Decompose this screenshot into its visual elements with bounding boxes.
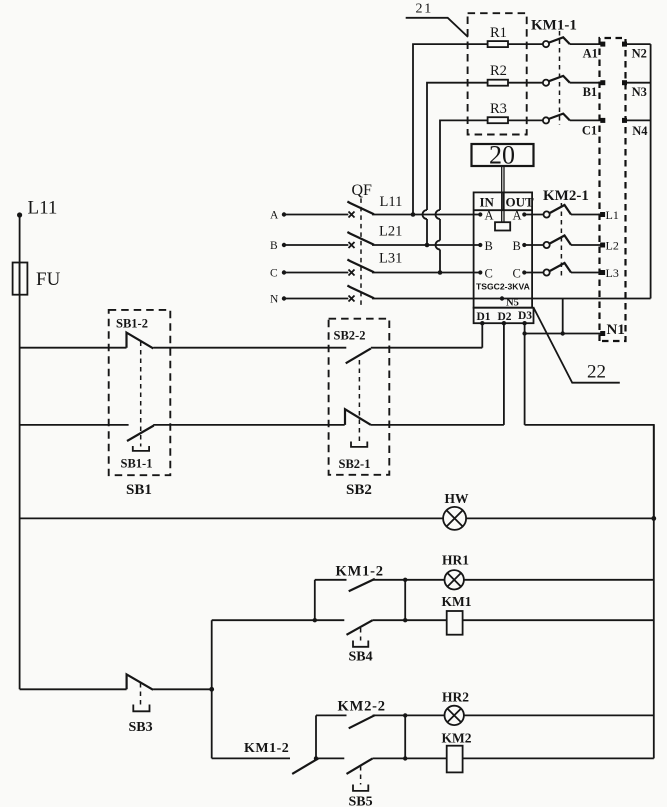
wire D3 drop <box>524 323 526 425</box>
svg-text:N3: N3 <box>632 85 647 99</box>
QF pole B <box>270 232 480 252</box>
label 22 with pointer <box>534 308 620 383</box>
wire N5 drop to N1 <box>562 299 564 334</box>
svg-text:FU: FU <box>36 269 61 290</box>
svg-text:A1: A1 <box>583 47 598 61</box>
wire left rail <box>19 215 21 689</box>
KM2-1 mechanical link (dashed) <box>560 203 562 276</box>
wire HR1-KM1 tie <box>404 580 406 620</box>
dashed box 21 (resistor bank) <box>468 13 527 134</box>
KM1-1 contact pole 3 <box>543 114 603 124</box>
svg-text:C: C <box>513 267 521 281</box>
svg-text:R1: R1 <box>490 25 507 41</box>
svg-text:OUT: OUT <box>506 195 535 210</box>
coil KM1 <box>442 594 472 635</box>
wire branch riser to HR2 <box>315 715 317 758</box>
contactor contact KM1-2 (NC on HR1 line) <box>336 564 384 592</box>
transformer unit U (TSGC2-3KVA) <box>474 192 534 307</box>
controller box 20 <box>472 141 534 170</box>
svg-text:KM1-2: KM1-2 <box>336 564 384 580</box>
dashed box SB1 <box>109 310 171 475</box>
SB1 actuator link (dashed) <box>140 342 142 447</box>
svg-text:21: 21 <box>416 2 434 17</box>
lamp HR1 <box>442 553 469 590</box>
wire KM2 branch line <box>212 757 654 759</box>
svg-text:L31: L31 <box>379 250 402 266</box>
wire control line 1 <box>20 347 483 349</box>
svg-text:C1: C1 <box>582 124 597 138</box>
svg-text:22: 22 <box>587 362 606 383</box>
node A1 <box>583 42 606 61</box>
svg-text:L21: L21 <box>379 224 402 240</box>
svg-text:SB1: SB1 <box>126 482 152 498</box>
wire D3 run to right rail <box>525 425 654 519</box>
pushbutton contact SB2-1 (NC) <box>339 409 371 471</box>
svg-text:SB2: SB2 <box>346 482 372 498</box>
pushbutton SB5 (NO) <box>347 758 373 807</box>
QF pole C <box>270 260 480 280</box>
KM2-1 contact pole 1 <box>524 205 602 218</box>
node L2 <box>600 239 619 253</box>
resistor R2 <box>423 63 543 247</box>
svg-text:N: N <box>270 294 279 306</box>
wire HR2-KM2 tie <box>404 715 406 758</box>
svg-text:SB2-1: SB2-1 <box>339 457 371 471</box>
svg-text:L11: L11 <box>380 194 403 210</box>
svg-text:N4: N4 <box>632 124 648 138</box>
svg-text:C: C <box>485 267 493 281</box>
svg-text:KM1-1: KM1-1 <box>531 18 577 34</box>
terminal strip dashed box <box>600 38 626 341</box>
svg-text:SB1-1: SB1-1 <box>121 457 153 471</box>
node B1 <box>583 80 606 99</box>
node C1 <box>582 118 605 138</box>
KM2-1 contact pole 3 <box>524 263 602 276</box>
svg-text:C: C <box>270 268 278 280</box>
wire right rail (control) <box>653 425 655 759</box>
svg-text:SB2-2: SB2-2 <box>334 329 366 343</box>
pushbutton contact SB2-2 (NO shown open) <box>334 329 371 364</box>
wire control line 2 <box>20 424 504 426</box>
pushbutton contact SB1-1 (NO) <box>121 426 154 471</box>
svg-text:B1: B1 <box>583 85 598 99</box>
wire mid rail <box>211 620 213 758</box>
dashed box SB2 <box>329 319 390 475</box>
svg-text:A: A <box>270 210 279 222</box>
lamp HR2 <box>442 690 469 726</box>
wire HR2 line <box>316 714 654 716</box>
svg-text:IN: IN <box>480 195 495 210</box>
svg-text:TSGC2-3KVA: TSGC2-3KVA <box>476 282 530 292</box>
QF pole N <box>270 286 374 306</box>
lamp HW <box>443 491 469 530</box>
pushbutton SB4 (NO) <box>347 620 373 664</box>
node L1 <box>600 208 619 222</box>
contactor contact KM1-2 (second, on KM2 line) <box>244 741 318 774</box>
svg-text:KM2-1: KM2-1 <box>543 188 589 204</box>
KM2-1 contact pole 2 <box>524 236 602 249</box>
label 21 <box>406 2 468 37</box>
svg-text:R2: R2 <box>490 63 507 79</box>
resistor R1 <box>411 25 543 217</box>
svg-text:HR1: HR1 <box>442 553 469 568</box>
resistor R3 <box>436 101 543 275</box>
svg-text:B: B <box>485 239 493 253</box>
node N4 <box>622 118 651 138</box>
wire HR1 line <box>315 579 654 581</box>
svg-text:SB4: SB4 <box>349 650 373 665</box>
coil KM2 <box>442 731 472 773</box>
svg-text:B: B <box>270 240 278 252</box>
pushbutton contact SB1-2 (NC) <box>116 317 153 349</box>
variac slider block <box>495 222 510 230</box>
svg-text:KM2-2: KM2-2 <box>338 699 386 715</box>
KM1-1 contact pole 2 <box>543 76 603 86</box>
node N2 <box>622 42 651 61</box>
wire control line 3 (HW line) <box>20 517 654 519</box>
fuse FU <box>13 263 61 295</box>
svg-text:A: A <box>485 209 494 223</box>
svg-text:SB5: SB5 <box>349 795 373 807</box>
wire D2 drop <box>503 323 505 425</box>
svg-text:N2: N2 <box>632 47 647 61</box>
svg-text:N1: N1 <box>607 322 625 338</box>
svg-text:QF: QF <box>352 182 373 199</box>
SB2 actuator link (dashed) <box>358 360 360 441</box>
wire branch riser to HR1 <box>314 580 316 620</box>
svg-text:R3: R3 <box>490 101 507 117</box>
svg-text:SB1-2: SB1-2 <box>116 317 148 331</box>
svg-text:L3: L3 <box>606 266 619 280</box>
svg-text:HW: HW <box>445 491 470 506</box>
svg-text:D3: D3 <box>518 310 532 322</box>
svg-text:A: A <box>513 209 522 223</box>
node N1 <box>525 322 625 338</box>
svg-text:SB3: SB3 <box>129 720 153 735</box>
wire KM1 branch line <box>212 619 654 621</box>
svg-text:L2: L2 <box>606 239 619 253</box>
node N3 <box>622 80 651 99</box>
node N5 on neutral wire <box>500 296 519 308</box>
wire right rail (neutral riser) <box>650 44 652 298</box>
KM1-1 contact pole 1 <box>543 37 603 47</box>
svg-text:KM1-2: KM1-2 <box>244 741 289 756</box>
terminal strip D1 D2 D3 <box>474 308 534 326</box>
svg-text:KM2: KM2 <box>442 731 472 746</box>
svg-text:HR2: HR2 <box>442 690 469 705</box>
wire D1 drop <box>481 323 483 348</box>
wire neutral line QF to right rail <box>372 298 651 300</box>
svg-text:D1: D1 <box>477 311 491 323</box>
svg-text:B: B <box>513 239 521 253</box>
wire slider control (double line) <box>502 166 504 222</box>
svg-text:L11: L11 <box>28 198 58 219</box>
node L3 <box>600 266 619 280</box>
KM1-1 mechanical link (dashed) <box>559 31 561 125</box>
svg-text:20: 20 <box>489 141 515 170</box>
pushbutton SB3 (NC) on rail branch <box>20 674 213 735</box>
svg-text:L1: L1 <box>606 208 619 222</box>
node L11 (top of left rail) <box>17 198 57 219</box>
contactor contact KM2-2 (on HR2 line) <box>338 699 386 729</box>
QF pole A <box>270 202 480 222</box>
svg-text:KM1: KM1 <box>442 594 472 609</box>
QF mechanical link (dashed) <box>360 198 362 306</box>
